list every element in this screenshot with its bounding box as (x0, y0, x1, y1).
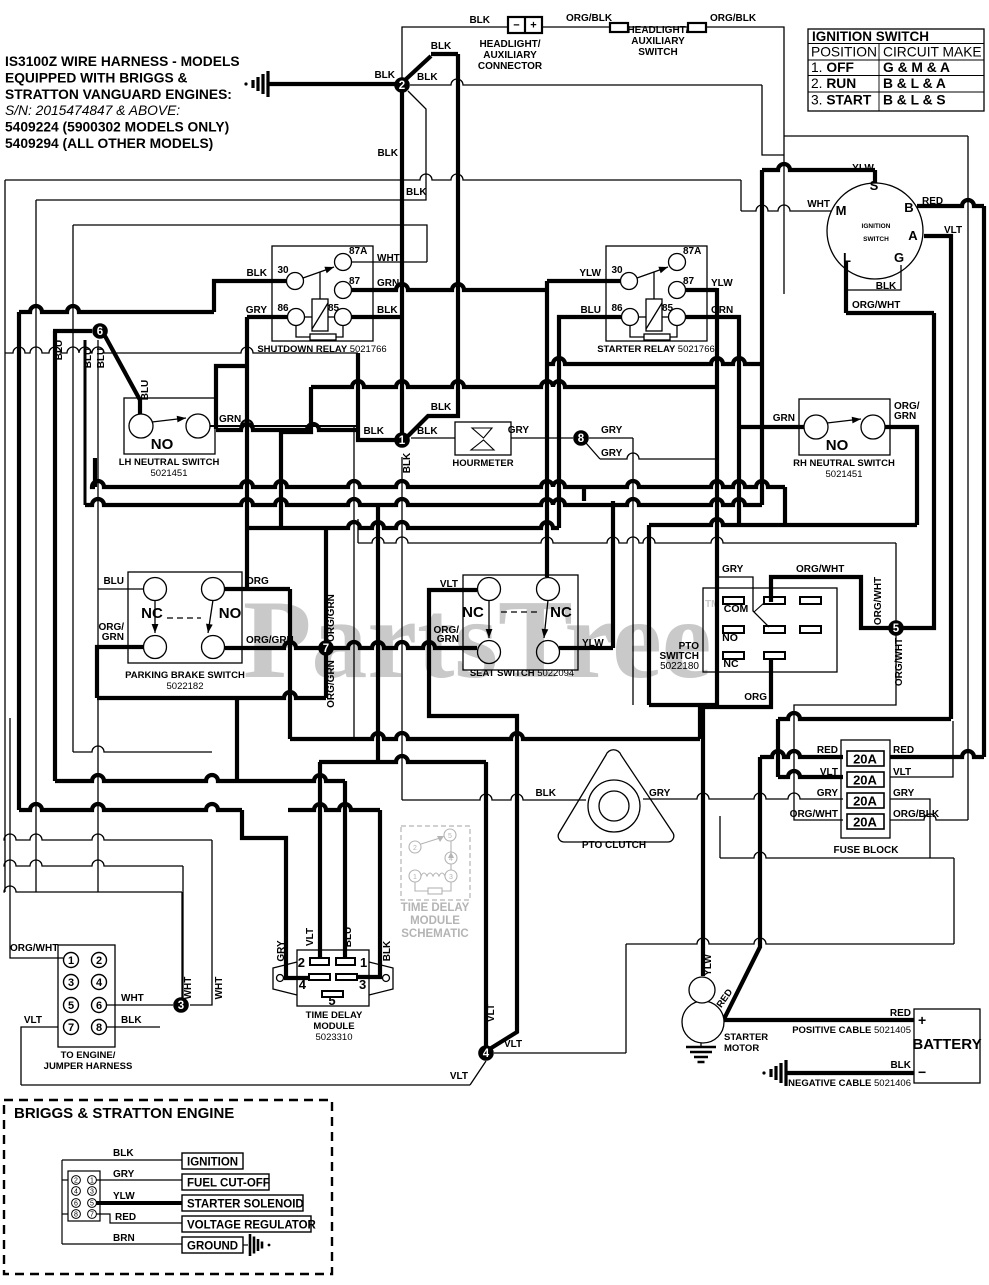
svg-text:SCHEMATIC: SCHEMATIC (401, 928, 469, 940)
svg-text:20A: 20A (853, 773, 877, 788)
svg-text:RED: RED (115, 1212, 136, 1223)
svg-text:3: 3 (359, 977, 366, 992)
svg-text:+: + (918, 1012, 926, 1028)
svg-text:85: 85 (328, 303, 340, 314)
svg-text:STARTER: STARTER (724, 1032, 768, 1043)
svg-text:NC: NC (723, 658, 739, 670)
svg-text:RED: RED (890, 1008, 911, 1019)
svg-text:TIME DELAY: TIME DELAY (306, 1010, 363, 1021)
svg-text:2: 2 (298, 955, 305, 970)
svg-text:5: 5 (893, 623, 900, 635)
svg-text:STARTER SOLENOID: STARTER SOLENOID (187, 1199, 304, 1211)
svg-text:MODULE: MODULE (313, 1021, 354, 1032)
svg-text:BLK: BLK (382, 940, 393, 961)
svg-text:CIRCUIT MAKE: CIRCUIT MAKE (883, 45, 982, 60)
svg-text:HEADLIGHT/: HEADLIGHT/ (627, 25, 688, 36)
svg-text:BRIGGS & STRATTON ENGINE: BRIGGS & STRATTON ENGINE (14, 1105, 234, 1122)
svg-text:VLT: VLT (440, 579, 458, 590)
svg-text:ORG/WHT: ORG/WHT (852, 300, 900, 311)
svg-text:BLK: BLK (363, 426, 384, 437)
svg-text:ORG/BLK: ORG/BLK (710, 13, 757, 24)
svg-text:RH NEUTRAL SWITCH: RH NEUTRAL SWITCH (793, 458, 895, 469)
svg-text:ORG: ORG (246, 576, 269, 587)
svg-text:AUXILIARY: AUXILIARY (483, 50, 537, 61)
svg-text:4: 4 (483, 1048, 490, 1060)
svg-text:WHT: WHT (377, 253, 400, 264)
svg-text:BLK: BLK (431, 402, 452, 413)
svg-text:3: 3 (90, 1189, 94, 1196)
svg-text:−: − (918, 1064, 926, 1080)
svg-text:POSITIVE CABLE 5021405: POSITIVE CABLE 5021405 (792, 1025, 911, 1036)
svg-text:M: M (836, 203, 847, 218)
svg-text:MOTOR: MOTOR (724, 1043, 759, 1054)
svg-text:8: 8 (74, 1212, 78, 1219)
svg-text:ORG/BLK: ORG/BLK (893, 809, 940, 820)
svg-text:6: 6 (96, 1000, 102, 1012)
svg-text:YLW: YLW (852, 163, 874, 174)
svg-text:4: 4 (96, 977, 103, 989)
svg-text:20A: 20A (853, 794, 877, 809)
svg-text:AUXILIARY: AUXILIARY (631, 36, 685, 47)
svg-text:2: 2 (399, 80, 405, 92)
svg-text:WHT: WHT (121, 993, 144, 1004)
svg-text:2: 2 (74, 1178, 78, 1185)
svg-text:5: 5 (328, 993, 335, 1008)
svg-text:HOURMETER: HOURMETER (452, 458, 513, 469)
svg-text:WHT: WHT (807, 199, 830, 210)
svg-text:85: 85 (662, 303, 674, 314)
svg-text:COM: COM (724, 603, 749, 615)
svg-text:BLK: BLK (377, 305, 398, 316)
svg-text:A: A (908, 228, 918, 243)
svg-text:VLT: VLT (305, 928, 316, 946)
svg-text:NC: NC (462, 604, 484, 621)
svg-text:3: 3 (449, 874, 453, 881)
svg-text:87A: 87A (349, 246, 367, 257)
svg-text:BLU: BLU (54, 340, 65, 361)
svg-text:VLT: VLT (944, 225, 962, 236)
svg-text:4: 4 (74, 1189, 78, 1196)
svg-text:ORG/WHT: ORG/WHT (796, 564, 844, 575)
svg-text:BLU: BLU (103, 576, 124, 587)
svg-text:GRN: GRN (219, 414, 241, 425)
svg-text:5409224 (5900302 MODELS ONLY): 5409224 (5900302 MODELS ONLY) (5, 120, 229, 135)
svg-text:BLK: BLK (406, 187, 427, 198)
svg-text:GRN: GRN (894, 411, 916, 422)
svg-text:GRY: GRY (649, 788, 671, 799)
svg-text:GRY: GRY (722, 564, 744, 575)
svg-text:NEGATIVE CABLE 5021406: NEGATIVE CABLE 5021406 (788, 1078, 911, 1089)
svg-text:GRN: GRN (773, 413, 795, 424)
svg-text:YLW: YLW (579, 268, 601, 279)
svg-text:5023310: 5023310 (316, 1032, 353, 1043)
svg-text:GROUND: GROUND (187, 1241, 238, 1253)
svg-text:STRATTON VANGUARD ENGINES:: STRATTON VANGUARD ENGINES: (5, 87, 232, 102)
svg-text:−: − (513, 20, 519, 32)
svg-text:FUEL CUT-OFF: FUEL CUT-OFF (187, 1178, 270, 1190)
svg-text:86: 86 (277, 303, 289, 314)
svg-text:ORG/GRN: ORG/GRN (326, 594, 337, 642)
svg-text:IGNITION: IGNITION (187, 1157, 238, 1169)
svg-text:VLT: VLT (820, 767, 838, 778)
svg-text:2: 2 (96, 955, 102, 967)
svg-text:20A: 20A (853, 815, 877, 830)
svg-text:BLK: BLK (890, 1060, 911, 1071)
svg-text:5021451: 5021451 (151, 468, 188, 479)
svg-text:20A: 20A (853, 752, 877, 767)
svg-text:GRY: GRY (601, 448, 623, 459)
svg-text:BLK: BLK (417, 72, 438, 83)
svg-text:ORG/WHT: ORG/WHT (873, 577, 884, 625)
svg-text:HEADLIGHT/: HEADLIGHT/ (479, 39, 540, 50)
svg-text:30: 30 (277, 265, 289, 276)
svg-text:PTO CLUTCH: PTO CLUTCH (582, 840, 646, 851)
svg-text:1: 1 (68, 955, 74, 967)
svg-text:VLT: VLT (893, 767, 911, 778)
svg-text:BLK: BLK (121, 1015, 142, 1026)
svg-text:3: 3 (68, 977, 74, 989)
svg-text:BLK: BLK (377, 148, 398, 159)
svg-text:TIME DELAY: TIME DELAY (401, 902, 470, 914)
svg-text:NC: NC (550, 604, 572, 621)
svg-text:6: 6 (97, 326, 103, 338)
svg-text:1: 1 (399, 435, 406, 447)
svg-text:ORG/GRN: ORG/GRN (326, 660, 337, 708)
svg-text:5409294 (ALL OTHER MODELS): 5409294 (ALL OTHER MODELS) (5, 136, 213, 151)
svg-text:BLK: BLK (417, 426, 438, 437)
svg-text:GRY: GRY (246, 305, 268, 316)
svg-text:8: 8 (96, 1022, 102, 1034)
svg-text:ORG/GRN: ORG/GRN (246, 635, 294, 646)
svg-text:4: 4 (299, 977, 307, 992)
svg-text:ORG: ORG (744, 692, 767, 703)
svg-text:YLW: YLW (582, 638, 604, 649)
svg-text:WHT: WHT (183, 977, 194, 1000)
svg-text:3: 3 (178, 1000, 184, 1012)
svg-text:RED: RED (817, 745, 838, 756)
svg-text:5: 5 (68, 1000, 74, 1012)
svg-text:7: 7 (90, 1212, 94, 1219)
svg-text:GRY: GRY (113, 1169, 135, 1180)
svg-text:2: 2 (413, 845, 417, 852)
svg-text:NO: NO (151, 436, 174, 453)
svg-text:G: G (894, 250, 904, 265)
svg-text:6: 6 (74, 1201, 78, 1208)
svg-text:ORG/BLK: ORG/BLK (566, 13, 613, 24)
svg-text:RED: RED (922, 196, 943, 207)
svg-text:VOLTAGE REGULATOR: VOLTAGE REGULATOR (187, 1220, 317, 1232)
svg-text:S/N: 2015474847 & ABOVE:: S/N: 2015474847 & ABOVE: (5, 103, 180, 118)
svg-text:PARKING BRAKE SWITCH: PARKING BRAKE SWITCH (125, 670, 245, 681)
svg-text:L: L (843, 250, 851, 265)
svg-text:BLK: BLK (374, 70, 395, 81)
svg-text:FUSE BLOCK: FUSE BLOCK (834, 845, 900, 856)
svg-text:ORG/WHT: ORG/WHT (10, 943, 58, 954)
svg-text:SWITCH: SWITCH (638, 47, 677, 58)
svg-text:87: 87 (683, 276, 695, 287)
svg-text:87A: 87A (683, 246, 701, 257)
svg-text:GRY: GRY (817, 788, 839, 799)
svg-text:GRN: GRN (377, 278, 399, 289)
svg-text:SHUTDOWN RELAY 5021766: SHUTDOWN RELAY 5021766 (257, 344, 386, 355)
svg-text:5: 5 (448, 833, 452, 840)
svg-text:VLT: VLT (24, 1015, 42, 1026)
svg-text:5022182: 5022182 (167, 681, 204, 692)
svg-text:2. RUN: 2. RUN (811, 76, 856, 91)
svg-text:BLU: BLU (96, 348, 107, 369)
svg-text:JUMPER HARNESS: JUMPER HARNESS (44, 1061, 133, 1072)
svg-text:YLW: YLW (113, 1191, 135, 1202)
svg-text:G & M & A: G & M & A (883, 60, 950, 75)
svg-text:NO: NO (219, 605, 242, 622)
svg-text:+: + (530, 20, 536, 32)
svg-text:BRN: BRN (113, 1233, 135, 1244)
svg-text:BLU: BLU (140, 380, 151, 401)
svg-text:POSITION: POSITION (811, 45, 877, 60)
svg-text:VLT: VLT (504, 1039, 522, 1050)
svg-text:1: 1 (90, 1178, 94, 1185)
svg-text:3. START: 3. START (811, 93, 872, 108)
svg-text:YLW: YLW (703, 954, 714, 976)
svg-text:MODULE: MODULE (410, 915, 460, 927)
svg-text:GRY: GRY (508, 425, 530, 436)
svg-text:S: S (870, 178, 879, 193)
svg-text:SWITCH: SWITCH (863, 236, 889, 243)
svg-text:BATTERY: BATTERY (912, 1036, 981, 1053)
svg-text:YLW: YLW (711, 278, 733, 289)
svg-text:NO: NO (826, 437, 849, 454)
svg-text:GRN: GRN (711, 305, 733, 316)
svg-text:VLT: VLT (486, 1004, 497, 1022)
svg-text:BLK: BLK (431, 41, 452, 52)
svg-text:B & L & A: B & L & A (883, 76, 946, 91)
svg-text:7: 7 (323, 643, 329, 655)
svg-text:BLU: BLU (83, 348, 94, 369)
svg-text:IS3100Z WIRE HARNESS - MODELS: IS3100Z WIRE HARNESS - MODELS (5, 54, 240, 69)
svg-text:VLT: VLT (450, 1071, 468, 1082)
svg-text:BLU: BLU (580, 305, 601, 316)
svg-text:TO ENGINE/: TO ENGINE/ (61, 1050, 116, 1061)
svg-text:BLK: BLK (876, 281, 897, 292)
svg-text:BLK: BLK (113, 1148, 134, 1159)
svg-text:EQUIPPED WITH BRIGGS &: EQUIPPED WITH BRIGGS & (5, 70, 187, 85)
svg-text:IGNITION: IGNITION (862, 223, 891, 230)
svg-text:1: 1 (360, 955, 367, 970)
svg-text:7: 7 (68, 1022, 74, 1034)
svg-text:GRY: GRY (601, 425, 623, 436)
svg-text:ORG/WHT: ORG/WHT (790, 809, 838, 820)
svg-text:CONNECTOR: CONNECTOR (478, 61, 543, 72)
svg-text:86: 86 (611, 303, 623, 314)
svg-text:5021451: 5021451 (826, 469, 863, 480)
svg-text:PartsTree: PartsTree (243, 578, 712, 702)
svg-text:SEAT SWITCH 5022094: SEAT SWITCH 5022094 (470, 668, 574, 679)
svg-text:NC: NC (141, 605, 163, 622)
svg-text:5: 5 (90, 1201, 94, 1208)
svg-text:30: 30 (611, 265, 623, 276)
svg-text:BLK: BLK (535, 788, 556, 799)
svg-text:LH NEUTRAL SWITCH: LH NEUTRAL SWITCH (119, 457, 220, 468)
svg-text:1: 1 (413, 874, 417, 881)
svg-text:BLK: BLK (469, 15, 490, 26)
svg-text:GRN: GRN (102, 632, 124, 643)
svg-text:WHT: WHT (214, 977, 225, 1000)
svg-text:GRN: GRN (437, 634, 459, 645)
svg-text:5022180: 5022180 (660, 661, 699, 672)
svg-text:STARTER RELAY 5021766: STARTER RELAY 5021766 (597, 344, 715, 355)
svg-text:B: B (904, 200, 913, 215)
svg-text:RED: RED (893, 745, 914, 756)
svg-text:GRY: GRY (893, 788, 915, 799)
svg-text:8: 8 (578, 433, 585, 445)
svg-text:B & L & S: B & L & S (883, 93, 946, 108)
svg-text:NO: NO (722, 632, 738, 644)
svg-text:1. OFF: 1. OFF (811, 60, 854, 75)
svg-text:GRY: GRY (276, 940, 287, 962)
svg-text:ORG/WHT: ORG/WHT (894, 638, 905, 686)
svg-text:BLK: BLK (402, 452, 413, 473)
svg-text:87: 87 (349, 276, 361, 287)
svg-text:IGNITION SWITCH: IGNITION SWITCH (812, 29, 929, 44)
svg-text:BLK: BLK (246, 268, 267, 279)
svg-text:BLU: BLU (343, 927, 354, 948)
